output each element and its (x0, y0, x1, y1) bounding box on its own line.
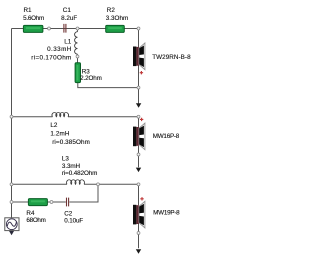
svg-text:MW19P-8: MW19P-8 (153, 209, 180, 216)
svg-text:MW16P-8: MW16P-8 (153, 133, 180, 140)
svg-text:5.6Ohm: 5.6Ohm (23, 15, 44, 22)
svg-text:0.33mH: 0.33mH (47, 46, 72, 53)
svg-text:ri=0.482Ohm: ri=0.482Ohm (62, 170, 98, 177)
svg-text:R1: R1 (24, 7, 33, 14)
svg-text:ri=0.170Ohm: ri=0.170Ohm (31, 54, 71, 61)
svg-text:68Ohm: 68Ohm (26, 217, 46, 224)
svg-text:ri=0.385Ohm: ri=0.385Ohm (52, 139, 90, 146)
svg-text:0.10uF: 0.10uF (64, 218, 83, 225)
svg-text:3.3Ohm: 3.3Ohm (106, 15, 128, 22)
svg-text:R2: R2 (107, 7, 116, 14)
svg-text:L3: L3 (62, 156, 70, 163)
svg-text:L1: L1 (64, 38, 72, 45)
svg-text:R4: R4 (26, 210, 35, 217)
svg-text:L2: L2 (50, 122, 58, 129)
svg-text:2.2Ohm: 2.2Ohm (80, 75, 102, 82)
svg-text:C1: C1 (63, 7, 72, 14)
svg-text:TW29RN-B-8: TW29RN-B-8 (152, 54, 191, 61)
svg-text:3.3mH: 3.3mH (62, 163, 81, 170)
svg-text:C2: C2 (64, 211, 73, 218)
svg-text:1.2mH: 1.2mH (50, 131, 69, 138)
svg-text:8.2uF: 8.2uF (61, 15, 77, 22)
